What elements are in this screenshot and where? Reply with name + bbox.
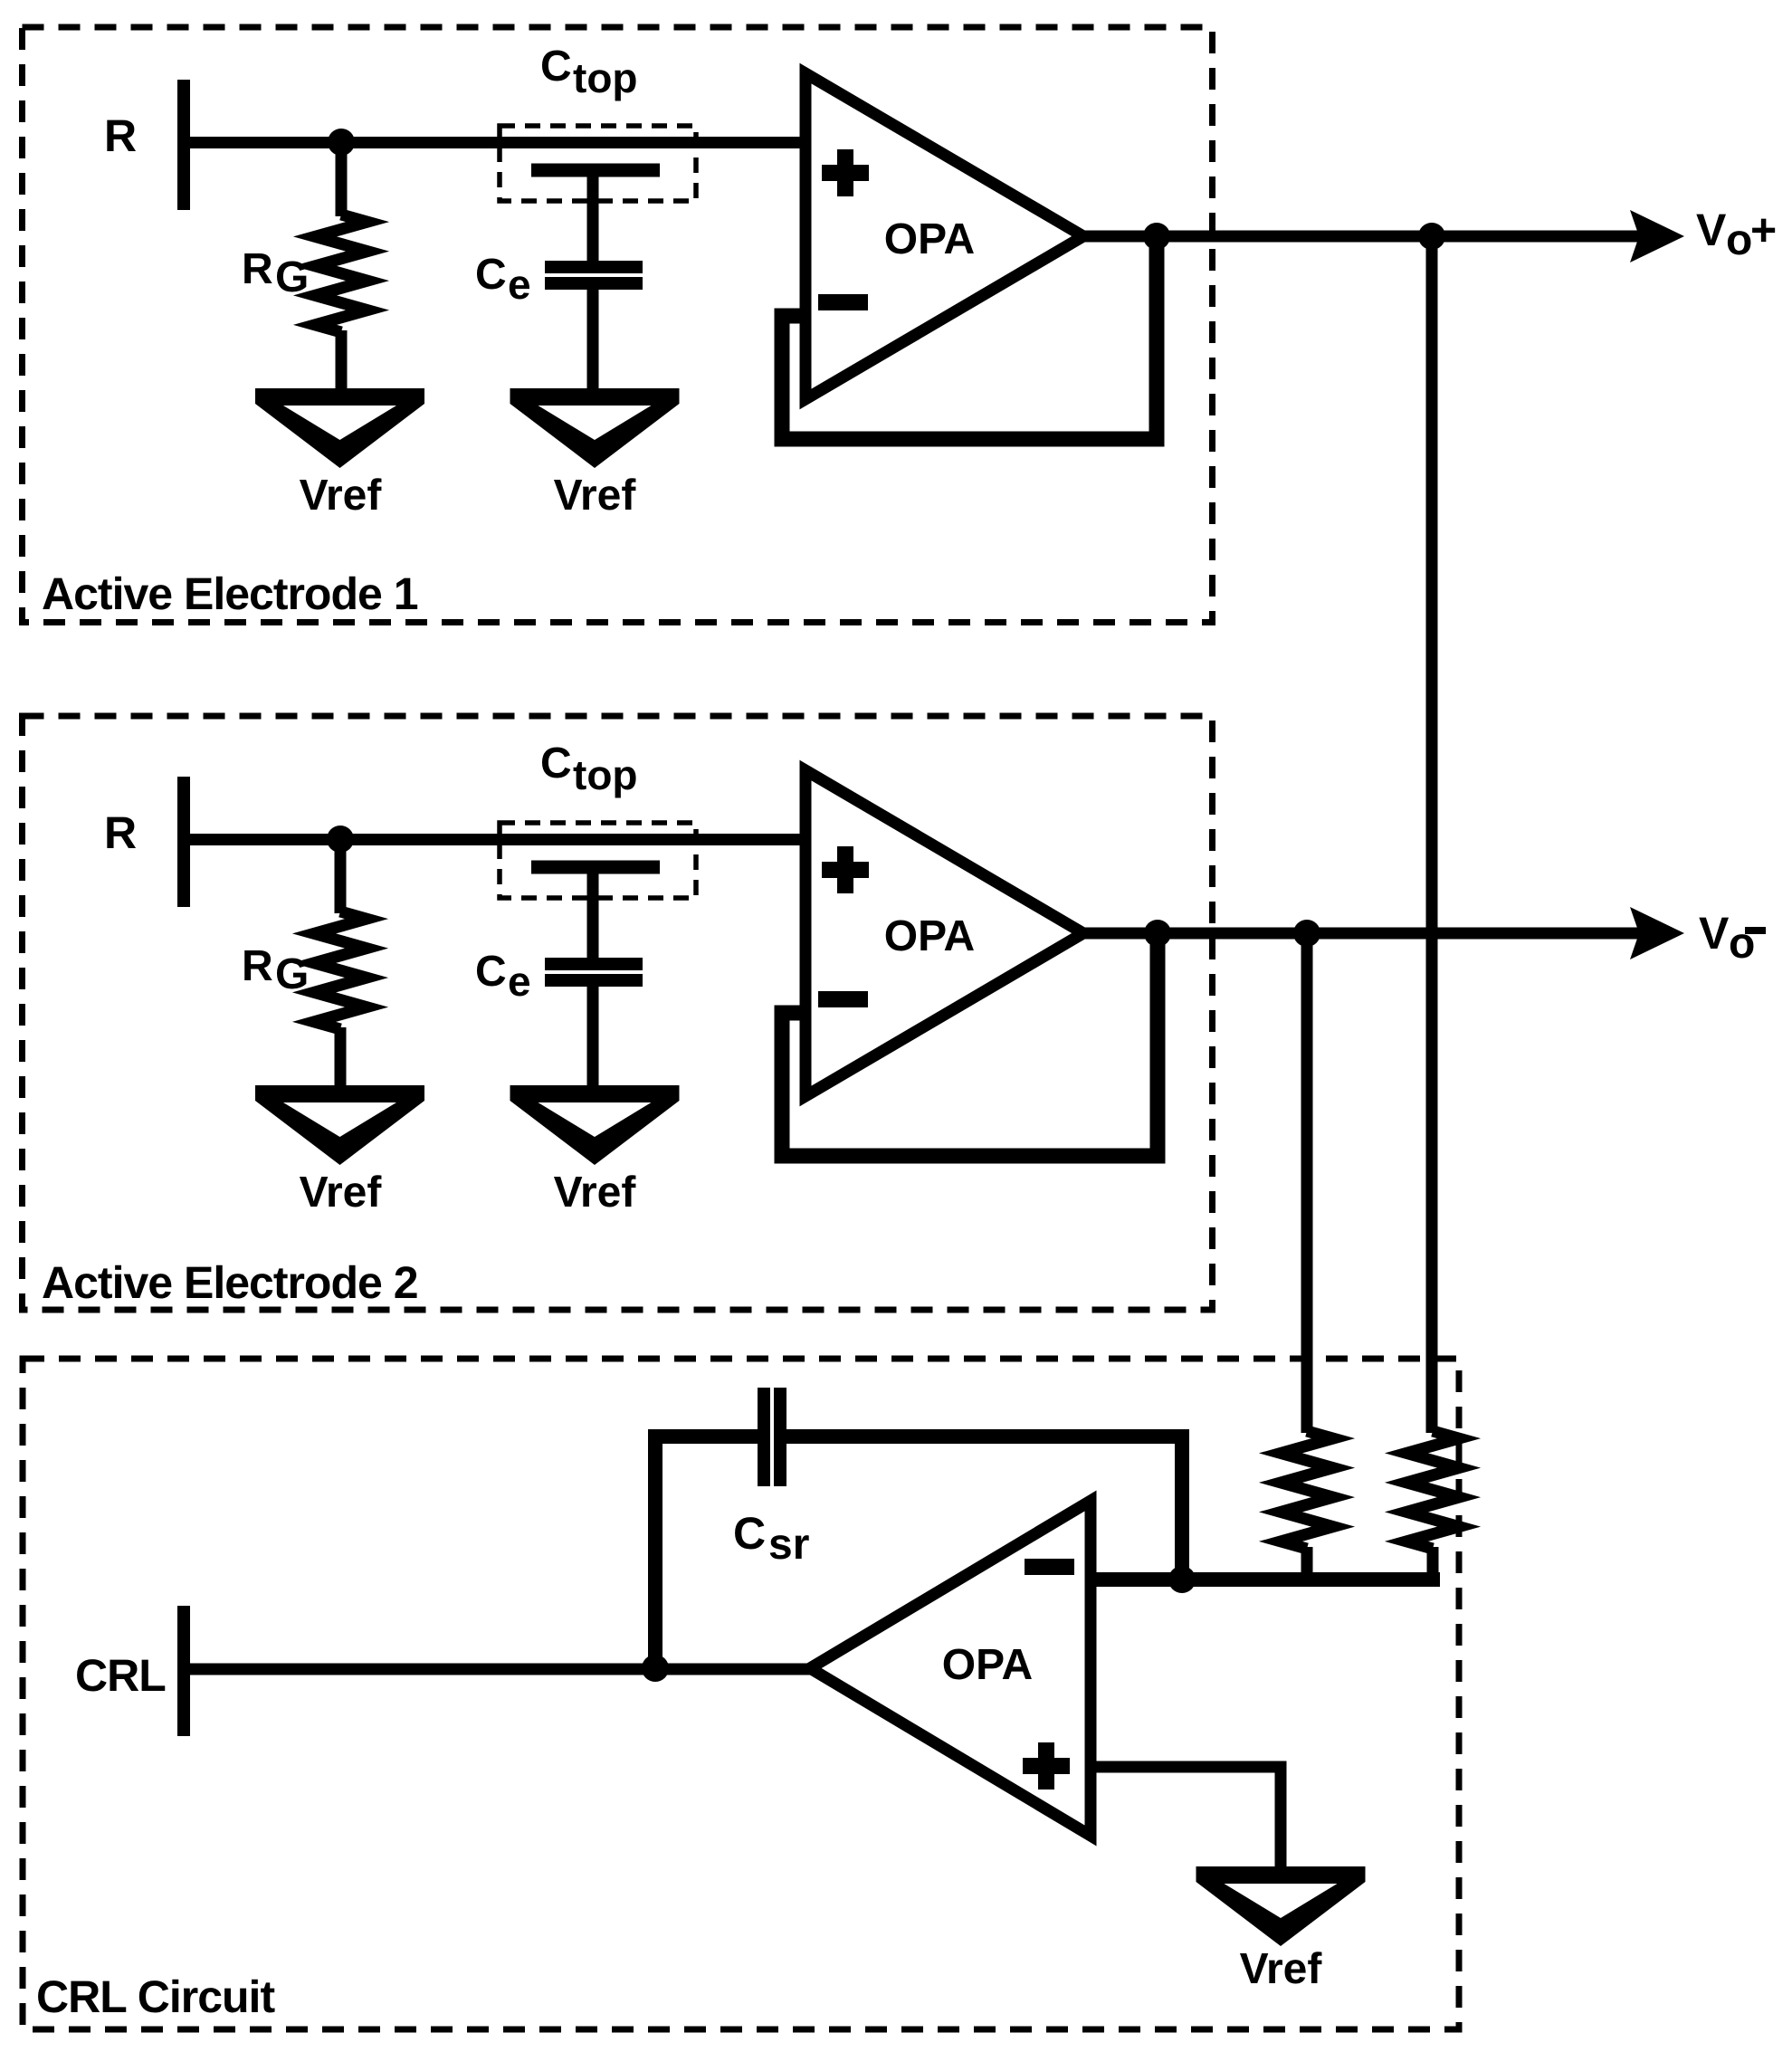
node junction at R/RG (AE1) xyxy=(328,129,355,156)
dashed box CRL Circuit xyxy=(23,1359,1459,2029)
svg-text:C: C xyxy=(475,948,507,996)
svg-text:R: R xyxy=(104,110,137,161)
capacitor Ce (AE1) xyxy=(545,267,643,283)
wire R to op-amp + input (AE2) xyxy=(177,834,808,845)
wire CRL to op-amp output xyxy=(177,1664,812,1675)
svg-text:V: V xyxy=(1696,205,1727,255)
Vref ground under Ce (AE1) xyxy=(510,388,680,468)
wire Ctop plate to Ce (AE2) xyxy=(587,869,599,959)
resistor RG (AE2) xyxy=(314,911,367,1029)
svg-text:OPA: OPA xyxy=(884,912,975,960)
Vref ground under RG (AE1) xyxy=(255,388,424,468)
Vref ground under Ce (AE2) xyxy=(510,1085,680,1165)
svg-text:OPA: OPA xyxy=(942,1641,1033,1689)
svg-text:Vref: Vref xyxy=(554,472,637,520)
wire op-amp output to Vo+ arrow (AE1) xyxy=(1082,231,1643,243)
arrowhead Vo- xyxy=(1630,907,1684,959)
wire RG to Vref ground (AE2) xyxy=(335,1027,347,1088)
dashed box around Ctop (AE2) xyxy=(500,823,696,898)
wire Csr left segment xyxy=(648,1429,759,1444)
svg-text:G: G xyxy=(275,950,309,998)
node output feedback tap (AE2) xyxy=(1144,920,1171,947)
wire Vo- line down to left summing resistor xyxy=(1301,933,1313,1433)
dashed box Active Electrode 2 xyxy=(23,716,1213,1310)
op-amp plus marker (AE2) xyxy=(822,846,869,893)
Vref ground under RG (AE2) xyxy=(255,1085,424,1165)
svg-text:e: e xyxy=(508,261,531,308)
svg-text:G: G xyxy=(275,253,309,301)
wire node to resistor RG (AE1) xyxy=(336,142,348,216)
svg-text:Vref: Vref xyxy=(554,1169,637,1217)
capacitor Ctop bottom plate (AE2) xyxy=(531,861,660,874)
op-amp plus marker (CRL) xyxy=(1023,1742,1070,1790)
wire op-amp output to Vo- arrow (AE2) xyxy=(1082,928,1643,940)
svg-text:R: R xyxy=(104,807,137,858)
arrowhead Vo+ xyxy=(1630,210,1684,262)
svg-text:C: C xyxy=(733,1508,766,1559)
wire Ctop plate to Ce (AE1) xyxy=(587,172,599,262)
op-amp OPA (AE1) triangle xyxy=(805,73,1083,399)
node Vo- to CRL tap xyxy=(1293,920,1320,947)
op-amp minus marker (AE2) xyxy=(818,991,868,1007)
wire Csr down to inverting input line xyxy=(1175,1429,1189,1580)
dashed box Active Electrode 1 xyxy=(23,27,1213,623)
svg-text:Vref: Vref xyxy=(1240,1945,1323,1993)
svg-text:Active Electrode 1: Active Electrode 1 xyxy=(42,568,418,619)
op-amp OPA (CRL) triangle xyxy=(810,1501,1091,1836)
svg-text:CRL Circuit: CRL Circuit xyxy=(36,1971,275,2022)
wire R to op-amp + input (AE1) xyxy=(177,137,808,148)
wire Ce to Vref ground (AE1) xyxy=(587,288,599,391)
svg-text:C: C xyxy=(540,43,572,91)
wire feedback tap up to Csr xyxy=(648,1429,662,1668)
svg-text:sr: sr xyxy=(768,1521,809,1569)
svg-text:Vref: Vref xyxy=(300,1169,383,1217)
svg-text:R: R xyxy=(242,942,273,990)
feedback wire output to inverting input (AE1) xyxy=(782,236,1157,439)
node output feedback tap (AE1) xyxy=(1143,223,1170,250)
svg-text:OPA: OPA xyxy=(884,215,975,263)
Vref ground at CRL op-amp xyxy=(1196,1866,1366,1946)
svg-text:o: o xyxy=(1726,216,1752,264)
svg-text:C: C xyxy=(540,740,572,787)
svg-text:Active Electrode 2: Active Electrode 2 xyxy=(42,1257,418,1308)
capacitor Ce (AE2) xyxy=(545,964,643,980)
capacitor Ctop bottom plate (AE1) xyxy=(531,164,660,177)
resistor from Vo+ branch (right) xyxy=(1406,1431,1459,1549)
op-amp plus marker (AE1) xyxy=(822,149,869,196)
wire RG to Vref ground (AE1) xyxy=(336,330,348,391)
resistor RG (AE1) xyxy=(315,215,367,332)
node CRL feedback tap xyxy=(642,1655,669,1682)
svg-text:C: C xyxy=(475,251,507,299)
svg-text:e: e xyxy=(508,958,531,1005)
svg-text:top: top xyxy=(573,751,638,798)
op-amp minus marker (AE1) xyxy=(818,294,868,310)
resistor from Vo- branch (left) xyxy=(1281,1431,1333,1549)
svg-text:CRL: CRL xyxy=(75,1650,166,1701)
node junction at R/RG (AE2) xyxy=(327,826,354,853)
wire Csr right segment xyxy=(785,1429,1182,1444)
svg-text:+: + xyxy=(1750,205,1777,255)
node Vo+ to CRL tap xyxy=(1418,223,1445,250)
op-amp OPA (AE2) triangle xyxy=(805,770,1083,1096)
node Csr to inverting line junction xyxy=(1168,1566,1196,1593)
svg-text:top: top xyxy=(573,54,638,101)
electrode terminal R (AE2) xyxy=(177,777,190,907)
capacitor Csr xyxy=(764,1388,780,1486)
wire non-inverting input to Vref ground (CRL) xyxy=(1089,1767,1281,1869)
wire node to resistor RG (AE2) xyxy=(335,839,347,913)
op-amp minus marker (CRL) xyxy=(1025,1559,1074,1575)
wire left resistor to inverting line xyxy=(1301,1547,1313,1584)
dashed box around Ctop (AE1) xyxy=(500,126,696,201)
svg-text:V: V xyxy=(1699,908,1730,959)
svg-text:R: R xyxy=(242,245,273,293)
wire Vo+ line down to right summing resistor xyxy=(1426,236,1438,1433)
electrode terminal CRL xyxy=(177,1606,190,1736)
svg-text:o: o xyxy=(1729,920,1755,968)
wire inverting input line of CRL op-amp xyxy=(1089,1572,1440,1587)
feedback wire output to inverting input (AE2) xyxy=(782,933,1158,1156)
wire Ce to Vref ground (AE2) xyxy=(587,985,599,1088)
electrode terminal R (AE1) xyxy=(177,80,190,210)
svg-text:Vref: Vref xyxy=(300,472,383,520)
wire right resistor to inverting line xyxy=(1427,1547,1439,1584)
